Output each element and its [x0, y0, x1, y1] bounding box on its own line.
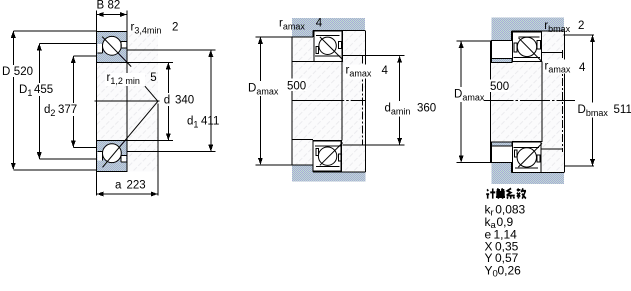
svg-text:a: a	[115, 180, 122, 192]
outer-ring inner line top	[513, 37, 540, 57]
raceway marks top	[514, 43, 517, 52]
svg-text:D: D	[2, 66, 10, 78]
dimension Damax 500	[256, 37, 293, 165]
raceway shoulder lines top	[97, 44, 102, 53]
label r1,2 min 5 (with white mask over contact line)	[105, 73, 145, 86]
faint hatch background	[292, 30, 365, 172]
ball top	[103, 36, 122, 55]
axis centreline	[484, 100, 576, 102]
raceway marks bottom	[514, 150, 517, 157]
contact line bottom ball	[320, 143, 343, 166]
bearing bottom (outline box)	[313, 141, 341, 172]
contact line top continuation to pressure centre	[145, 86, 158, 101]
dimension d 340 (bore)	[127, 62, 173, 140]
bearing top (outline box)	[512, 32, 541, 62]
dimension Dbmax 511	[563, 35, 594, 166]
svg-text:511: 511	[614, 104, 631, 116]
housing bore edge lines bottom	[292, 165, 365, 172]
shaft/housing faint hatch background	[97, 31, 158, 171]
axis centreline	[292, 100, 365, 102]
outer-ring inner line top	[315, 36, 341, 57]
dimension d amin 360	[343, 56, 405, 145]
svg-text:500: 500	[287, 81, 306, 93]
shaft shoulder strip top (hatched)	[492, 58, 512, 62]
dimension d1 411	[127, 50, 216, 152]
raceway shoulder lines bottom	[97, 151, 102, 160]
inner-ring line bottom	[315, 146, 341, 167]
housing bottom band (hatched)	[492, 163, 565, 184]
bearing top (outline box)	[314, 31, 342, 62]
label r amax (shaft) with dimension line	[361, 56, 363, 145]
contact line top ball	[320, 37, 343, 60]
label r amax 4 with tick and dimension line	[541, 52, 563, 149]
ball bottom	[517, 148, 536, 167]
hanzi 算	[496, 188, 505, 198]
svg-text:500: 500	[490, 81, 509, 93]
dimension a 223	[97, 193, 158, 195]
dimension Damax 500	[457, 41, 492, 162]
contact line top ball	[519, 38, 543, 62]
ball bottom	[103, 144, 122, 163]
svg-text:82: 82	[108, 0, 121, 12]
raceway groove cut-outs top section	[97, 44, 102, 53]
contact line bottom ball	[518, 143, 542, 167]
housing block side lines	[292, 30, 365, 172]
dimension D1 455	[39, 43, 96, 159]
dimension B 82	[97, 14, 127, 16]
bearing bottom (outline box)	[513, 142, 541, 173]
ball top	[319, 37, 336, 54]
housing top band (hatched)	[492, 18, 565, 41]
raceway groove cut-outs bottom section	[97, 151, 102, 160]
bearing side extension lines (left and right faces)	[97, 11, 127, 196]
spacer ring bottom (white box)	[492, 146, 514, 163]
svg-text:2: 2	[578, 20, 584, 32]
svg-text:360: 360	[417, 103, 436, 115]
svg-text:411: 411	[201, 116, 219, 128]
faint hatch background	[491, 31, 565, 172]
svg-text:377: 377	[58, 104, 77, 116]
inner-ring line bottom	[514, 147, 540, 168]
housing bore edge lines top	[492, 31, 565, 40]
ball top	[517, 37, 536, 56]
housing top band (hatched)	[292, 18, 365, 37]
shaft abutment lines left	[292, 62, 313, 140]
shaft shoulder strip bottom (hatched)	[492, 142, 512, 146]
hanzi 系	[507, 188, 515, 198]
svg-text:4: 4	[316, 17, 323, 29]
raceway marks bottom	[316, 149, 319, 156]
housing bore edge lines top	[292, 30, 365, 37]
dimension d2 377	[73, 56, 96, 147]
heading 计算系数 (drawn strokes)	[486, 188, 526, 198]
spacer ring top (white box)	[492, 40, 514, 58]
svg-text:223: 223	[127, 180, 146, 192]
svg-text:B: B	[97, 0, 105, 12]
svg-text:r3,4min: r3,4min	[131, 22, 162, 36]
bore surface line right side	[541, 62, 543, 142]
ball bottom	[318, 147, 336, 165]
svg-text:4: 4	[579, 62, 586, 74]
raceway marks top	[316, 47, 319, 54]
svg-text:520: 520	[14, 66, 33, 78]
a-dimension drop line from pressure centre	[157, 104, 159, 196]
svg-text:2: 2	[172, 22, 178, 34]
housing bottom band (hatched)	[292, 165, 365, 182]
svg-text:340: 340	[175, 95, 194, 107]
bore surface line right side	[341, 62, 343, 141]
svg-text:5: 5	[150, 72, 156, 84]
hanzi 数	[517, 188, 526, 198]
bearing bottom section (hatched)	[97, 141, 127, 172]
housing block side lines	[491, 31, 565, 172]
svg-text:0,26: 0,26	[498, 263, 522, 277]
axis line	[95, 100, 160, 102]
contact angle line through top ball	[102, 37, 131, 67]
contact line through bottom ball to pressure centre	[103, 101, 159, 167]
dimension D 520 (left outermost)	[13, 31, 96, 170]
hanzi 计	[486, 189, 495, 199]
svg-text:Y0: Y0	[485, 263, 498, 279]
svg-text:455: 455	[34, 84, 53, 96]
housing bore edge lines bottom	[492, 163, 565, 173]
bearing outer+inner ring top section (hatched)	[97, 31, 127, 62]
svg-text:4: 4	[382, 65, 389, 77]
svg-text:d: d	[164, 95, 170, 107]
